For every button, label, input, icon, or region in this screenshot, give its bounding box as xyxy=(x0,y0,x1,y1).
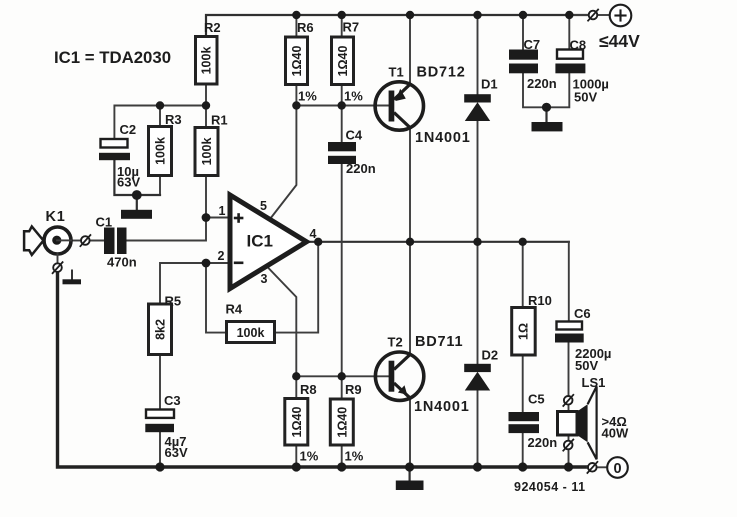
svg-text:924054 - 11: 924054 - 11 xyxy=(514,480,586,494)
label 470n xyxy=(107,255,137,270)
svg-text:1N4001: 1N4001 xyxy=(415,130,471,146)
svg-text:R10: R10 xyxy=(528,293,552,308)
svg-text:C3: C3 xyxy=(164,393,181,408)
wire pin 2 to R4 left xyxy=(206,263,227,333)
label 10u xyxy=(117,164,139,179)
svg-text:1%: 1% xyxy=(298,89,317,104)
label pin 1 xyxy=(219,204,226,218)
wire R9 leads xyxy=(341,376,343,467)
svg-text:C7: C7 xyxy=(524,37,541,52)
svg-text:BD712: BD712 xyxy=(417,65,466,81)
label 40W xyxy=(602,426,629,441)
svg-text:220n: 220n xyxy=(528,435,558,450)
wire top supply rail xyxy=(206,15,589,37)
wire base row R8-R9 to T2 xyxy=(296,375,390,377)
svg-text:R5: R5 xyxy=(165,294,182,309)
resistor R9 1R40 xyxy=(330,399,353,445)
label C7 xyxy=(524,37,541,52)
label R1 xyxy=(211,113,228,128)
label D2 xyxy=(482,348,499,363)
svg-text:1: 1 xyxy=(219,204,226,218)
label max 44V xyxy=(599,31,640,51)
svg-text:1Ω: 1Ω xyxy=(517,323,531,340)
svg-text:1Ω40: 1Ω40 xyxy=(290,46,304,77)
svg-text:50V: 50V xyxy=(574,90,597,105)
svg-text:IC1 = TDA2030: IC1 = TDA2030 xyxy=(54,48,171,67)
wire C3 leads xyxy=(159,355,161,468)
svg-text:100k: 100k xyxy=(200,138,214,166)
label pin 3 xyxy=(261,272,268,286)
label 1% R6 xyxy=(298,89,317,104)
svg-text:4: 4 xyxy=(310,227,317,241)
label 2200u xyxy=(575,346,611,361)
svg-text:0: 0 xyxy=(613,461,621,477)
label 220n C7 xyxy=(527,76,557,91)
ground at K1 shield xyxy=(63,270,82,285)
connector slash circle supply xyxy=(588,9,599,21)
label R7 xyxy=(343,20,360,35)
svg-text:≤44V: ≤44V xyxy=(599,31,640,51)
svg-text:1Ω40: 1Ω40 xyxy=(336,46,350,77)
label 1N4001 D2 xyxy=(414,399,470,415)
wire R6-R7 row to T1 base xyxy=(296,85,390,106)
svg-text:220n: 220n xyxy=(527,76,557,91)
svg-text:1N4001: 1N4001 xyxy=(414,399,470,415)
svg-text:D2: D2 xyxy=(482,348,499,363)
svg-text:8k2: 8k2 xyxy=(154,319,168,340)
label 50V C6 xyxy=(575,358,598,373)
wire supply terminal link xyxy=(569,14,609,16)
resistor R5 8k2 xyxy=(149,304,172,355)
capacitor C3 4u7 electrolytic xyxy=(145,410,174,433)
label R4 xyxy=(226,302,243,317)
wire R2 bottom to R1 top / row to C2-R3 xyxy=(114,84,206,139)
junction dots row1 xyxy=(132,101,551,200)
label R10 xyxy=(528,293,552,308)
wire pin 5 to R6 bottom xyxy=(270,106,296,220)
junction dots top rail xyxy=(292,11,573,19)
label C1 xyxy=(96,215,113,230)
junction dots op-amp inputs xyxy=(202,213,211,267)
label pin 2 xyxy=(218,249,225,263)
capacitor C4 220n xyxy=(328,142,356,164)
label pin 4 xyxy=(310,227,317,241)
label greater 4 ohm xyxy=(602,414,627,429)
svg-text:1%: 1% xyxy=(344,89,363,104)
wire C4 vertical (R7 bottom to R9 top) xyxy=(341,106,343,377)
label K1 xyxy=(46,209,66,225)
label T1 xyxy=(389,65,404,80)
wire output row (pin 4 net) xyxy=(307,241,569,243)
label R9 xyxy=(345,382,362,397)
svg-text:D1: D1 xyxy=(481,77,498,92)
diode D2 1N4001 xyxy=(464,364,491,391)
label 1% R8 xyxy=(300,449,319,464)
resistor R1 100k xyxy=(195,128,218,176)
label 1% R9 xyxy=(345,449,364,464)
label 63V C2 xyxy=(117,175,140,190)
label 50V C8 xyxy=(574,90,597,105)
wire R1 bottom to pin 1 xyxy=(206,176,230,218)
label C2 xyxy=(120,122,137,137)
wire T1 emitter to top rail xyxy=(409,15,411,84)
svg-text:1%: 1% xyxy=(345,449,364,464)
svg-text:2: 2 xyxy=(218,249,225,263)
wire C2 bottom to ground junction xyxy=(114,160,160,195)
svg-text:T1: T1 xyxy=(389,65,404,80)
svg-text:BD711: BD711 xyxy=(415,334,463,350)
resistor R6 1R40 xyxy=(286,37,308,85)
label C3 xyxy=(164,393,181,408)
svg-text:R4: R4 xyxy=(226,302,243,317)
label R6 xyxy=(297,20,314,35)
capacitor C8 1000u electrolytic xyxy=(555,50,585,74)
svg-text:T2: T2 xyxy=(388,335,403,350)
junction dots base row xyxy=(292,372,346,380)
resistor R7 1R40 xyxy=(332,37,354,85)
label 220n C4 xyxy=(346,161,376,176)
junction dots bottom rail xyxy=(155,462,573,471)
label R8 xyxy=(300,382,317,397)
label LS1 xyxy=(582,375,606,390)
resistor R3 100k xyxy=(149,127,172,176)
wire zero terminal link xyxy=(588,466,608,468)
label title IC1 = TDA2030 xyxy=(54,48,171,67)
ground below C7 C8 xyxy=(532,107,563,131)
wire input C1 to pin 1 xyxy=(73,218,207,241)
label board number 924054-11 xyxy=(514,480,586,494)
connector slash circle K1 shield xyxy=(52,262,63,274)
label BD712 xyxy=(417,65,466,81)
junction dots output row xyxy=(314,238,527,246)
wire C8 top lead xyxy=(568,15,570,50)
svg-text:63V: 63V xyxy=(165,445,188,460)
resistor R10 1R xyxy=(512,308,536,356)
svg-text:3: 3 xyxy=(261,272,268,286)
svg-text:R2: R2 xyxy=(204,20,221,35)
svg-text:C1: C1 xyxy=(96,215,113,230)
svg-text:C6: C6 xyxy=(574,306,591,321)
connector slash circle input series xyxy=(80,234,91,246)
terminal zero xyxy=(607,457,628,478)
label D1 xyxy=(481,77,498,92)
svg-text:R9: R9 xyxy=(345,382,362,397)
svg-text:R8: R8 xyxy=(300,382,317,397)
svg-text:R1: R1 xyxy=(211,113,228,128)
wire pin 3 to R8 top xyxy=(267,267,296,377)
svg-text:220n: 220n xyxy=(346,161,376,176)
wire T1 collector to output row xyxy=(409,128,411,242)
capacitor C2 10u electrolytic xyxy=(99,139,130,160)
label BD711 xyxy=(415,334,463,350)
svg-text:100k: 100k xyxy=(200,47,214,75)
wire T2 emitter to ground rail xyxy=(409,398,411,467)
resistor R2 100k xyxy=(196,37,218,85)
resistor R8 1R40 xyxy=(285,399,308,446)
wire R8 bottom lead xyxy=(295,376,297,467)
svg-text:63V: 63V xyxy=(117,175,140,190)
wire bottom ground rail xyxy=(58,272,588,467)
wire R4 right to output node xyxy=(275,242,319,333)
wire R6 top lead xyxy=(295,15,297,37)
svg-text:100k: 100k xyxy=(237,326,265,340)
loudspeaker LS1 xyxy=(558,386,597,459)
wire R10 branch xyxy=(522,242,524,467)
wire C7 leads xyxy=(523,15,569,107)
label C6 xyxy=(574,306,591,321)
svg-text:1Ω40: 1Ω40 xyxy=(290,407,304,438)
wire D1 vertical xyxy=(477,15,479,242)
svg-text:R3: R3 xyxy=(165,112,182,127)
label 1N4001 D1 xyxy=(415,130,471,146)
op-amp IC1 TDA2030 xyxy=(230,195,307,289)
wire D2 vertical xyxy=(477,242,479,467)
ground below C2 xyxy=(121,195,152,219)
svg-text:1%: 1% xyxy=(300,449,319,464)
connector slash circle zero xyxy=(587,461,598,473)
svg-text:C4: C4 xyxy=(346,128,363,143)
label R3 xyxy=(165,112,182,127)
terminal plus supply xyxy=(610,5,632,27)
label C4 xyxy=(346,128,363,143)
label 63V C3 xyxy=(165,445,188,460)
svg-text:40W: 40W xyxy=(602,426,629,441)
transistor T2 BD711 xyxy=(375,352,423,400)
label R2 xyxy=(204,20,221,35)
svg-text:1Ω40: 1Ω40 xyxy=(335,407,349,438)
capacitor C6 2200u electrolytic xyxy=(555,322,584,343)
svg-text:LS1: LS1 xyxy=(582,375,606,390)
connector K1 phono socket xyxy=(24,227,71,264)
wire T2 collector to output row xyxy=(409,242,411,355)
wire R3 leads xyxy=(159,106,161,196)
label 4u7 xyxy=(165,434,187,449)
label C8 xyxy=(570,38,587,53)
wire C6-LS1 branch xyxy=(568,242,570,467)
svg-text:C8: C8 xyxy=(570,38,587,53)
label 1000u xyxy=(573,77,609,92)
label C5 xyxy=(528,392,545,407)
svg-text:K1: K1 xyxy=(46,209,66,225)
label 220n C5 xyxy=(528,435,558,450)
svg-text:100k: 100k xyxy=(154,137,168,165)
svg-text:R7: R7 xyxy=(343,20,360,35)
label T2 xyxy=(388,335,403,350)
svg-text:5: 5 xyxy=(260,199,267,213)
svg-text:50V: 50V xyxy=(575,358,598,373)
svg-text:IC1: IC1 xyxy=(247,232,273,251)
diode D1 1N4001 xyxy=(464,94,491,121)
resistor R4 100k xyxy=(227,322,275,343)
svg-text:470n: 470n xyxy=(107,255,137,270)
capacitor C5 220n xyxy=(509,412,540,433)
capacitor C1 470n xyxy=(104,228,127,255)
svg-text:C2: C2 xyxy=(120,122,137,137)
ground at T2 emitter on rail xyxy=(396,467,424,490)
label 1% R7 xyxy=(344,89,363,104)
svg-text:C5: C5 xyxy=(528,392,545,407)
wire pin 2 to R5 xyxy=(160,263,230,304)
svg-text:R6: R6 xyxy=(297,20,314,35)
transistor T1 BD712 xyxy=(375,82,423,130)
label R5 xyxy=(165,294,182,309)
wire R7 top lead xyxy=(341,15,343,37)
label pin 5 xyxy=(260,199,267,213)
capacitor C7 220n xyxy=(509,50,538,74)
